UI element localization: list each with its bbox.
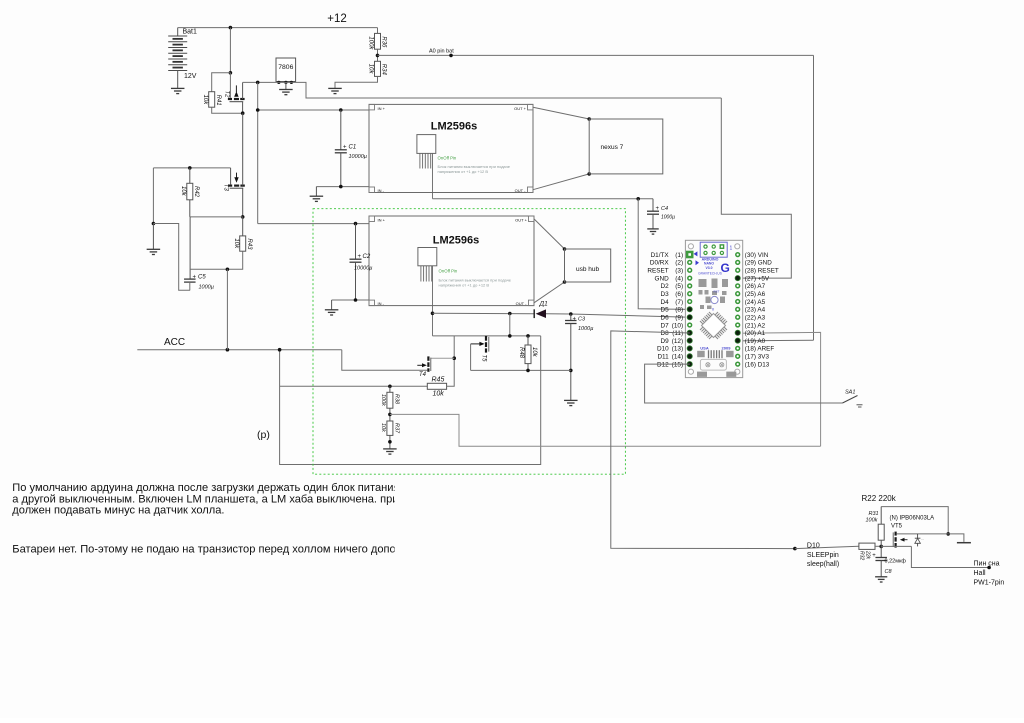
svg-text:а другой выключенным. Включен: а другой выключенным. Включен LM планшет… (12, 493, 410, 505)
svg-text:(17) 3V3: (17) 3V3 (745, 354, 770, 361)
wire module2 OnOff down (432, 266, 434, 336)
svg-text:(21) A2: (21) A2 (745, 322, 766, 329)
transistor T4 (431, 357, 454, 359)
svg-text:(24) A5: (24) A5 (745, 299, 766, 306)
node T4 drain (452, 356, 456, 360)
svg-text:(23) A4: (23) A4 (745, 307, 766, 314)
svg-text:OUT -: OUT - (515, 188, 526, 193)
transistor T5 (485, 336, 487, 341)
ground module1 IN- (310, 195, 324, 197)
svg-text:D12: D12 (657, 361, 669, 368)
block nexus 7 (589, 119, 663, 174)
resistor R37 10k (387, 421, 393, 435)
svg-text:По умолчанию ардуина должна по: По умолчанию ардуина должна после загруз… (12, 482, 399, 494)
svg-text:C4: C4 (661, 206, 668, 212)
svg-text:(2): (2) (675, 260, 683, 267)
svg-text:OUT +: OUT + (515, 217, 527, 222)
svg-text:должен подавать минус на датчи: должен подавать минус на датчик холла. (12, 505, 224, 517)
svg-text:D4: D4 (661, 299, 670, 306)
SMD pads (699, 279, 707, 287)
svg-text:(15): (15) (672, 361, 683, 368)
capacitor C4 1000u (652, 199, 654, 211)
svg-text:R34: R34 (381, 64, 387, 76)
resistor R48 10k (527, 336, 529, 345)
svg-text:PW1-7pin: PW1-7pin (974, 579, 1005, 586)
ground under 7806 (285, 82, 287, 89)
svg-text:D3: D3 (661, 291, 670, 298)
ground under C4 (647, 228, 658, 230)
transistor T2 (228, 98, 232, 100)
svg-text:+: + (656, 206, 660, 212)
wire R43 bottom rail (190, 251, 243, 269)
wire loop from T5 rail down-around to ACC (280, 336, 541, 465)
7806 pin dots (277, 81, 280, 84)
svg-text:T5: T5 (480, 355, 486, 363)
module LM2596s #2 (369, 216, 534, 306)
svg-text:100k: 100k (380, 394, 386, 406)
pin1 square pad (686, 251, 694, 259)
svg-text:(N) IPB06N03LA: (N) IPB06N03LA (890, 516, 935, 522)
ground under C8 (875, 576, 887, 578)
svg-text:usb hub: usb hub (576, 266, 600, 273)
wire VT5 source to hall pin (911, 546, 989, 567)
svg-text:(28) RESET: (28) RESET (745, 268, 779, 275)
svg-text:1000µ: 1000µ (661, 214, 675, 220)
svg-text:10k: 10k (531, 347, 537, 358)
wire left branch down to ground (152, 168, 154, 224)
wire C5 bottom loop (189, 282, 191, 290)
wire module2 IN- to ground (332, 299, 369, 301)
svg-text:D10: D10 (657, 346, 669, 353)
svg-text:10k: 10k (233, 238, 239, 249)
svg-text:A0 pin bat: A0 pin bat (429, 49, 454, 55)
svg-text:D0/RX: D0/RX (650, 260, 670, 267)
wires module2 OUT to usb hub (534, 219, 565, 249)
svg-text:R45: R45 (432, 377, 445, 384)
wire D12 to switch SA1 (645, 364, 843, 403)
svg-text:V3.0: V3.0 (706, 266, 713, 270)
svg-text:(12): (12) (672, 338, 683, 345)
wire R34 to ground (335, 76, 378, 88)
svg-text:OUT -: OUT - (516, 301, 527, 306)
svg-text:IN +: IN + (378, 106, 386, 111)
onoff package module1 (417, 135, 436, 154)
svg-text:D7: D7 (661, 322, 670, 329)
svg-text:R22 220k: R22 220k (862, 494, 897, 503)
wire A0 pin bat (378, 54, 814, 56)
description paragraphs (clipped at right) (12, 482, 410, 556)
switch SA1 (843, 396, 858, 404)
resistor R42 10k (189, 168, 191, 183)
svg-text:2009: 2009 (722, 345, 732, 350)
wire T3 gate rail (153, 167, 230, 169)
ground under R34 (328, 87, 342, 89)
svg-text:C8: C8 (885, 569, 893, 575)
svg-text:Д1: Д1 (539, 301, 549, 308)
capacitor C3 1000u (569, 312, 573, 316)
svg-text:1000µ: 1000µ (199, 284, 214, 290)
svg-text:100k: 100k (866, 518, 878, 524)
ground under R37 (383, 448, 397, 450)
svg-text:(29) GND: (29) GND (745, 260, 772, 267)
svg-text:D9: D9 (661, 338, 670, 345)
svg-text:OUT +: OUT + (514, 106, 526, 111)
capacitor C2 10000u (354, 222, 358, 226)
ground below Bat1 (171, 87, 185, 89)
svg-text:T3: T3 (222, 184, 228, 192)
svg-text:D5: D5 (661, 307, 670, 314)
module LM2596s #1 (369, 104, 533, 192)
wire T5 drain rail (433, 335, 541, 337)
svg-text:R38: R38 (393, 394, 399, 405)
svg-text:+: + (358, 254, 362, 260)
svg-text:GRAVITECH.US: GRAVITECH.US (698, 272, 722, 276)
svg-text:1: 1 (730, 246, 733, 252)
resistor R36 100k (377, 28, 379, 34)
transistor T3 (228, 185, 232, 187)
svg-text:12V: 12V (184, 73, 197, 80)
svg-text:LM2596s: LM2596s (433, 234, 479, 246)
dashed highlight box (313, 209, 625, 475)
wire ACC to T4 gate (342, 350, 428, 371)
svg-text:D6: D6 (661, 314, 670, 321)
wire module1 IN+ (258, 109, 369, 111)
svg-text:RESET: RESET (647, 268, 668, 275)
wire R45 rail (280, 385, 428, 387)
svg-text:IN -: IN - (378, 188, 385, 193)
resistor R41 10k (212, 73, 231, 92)
svg-text:OnOff Pin: OnOff Pin (439, 268, 458, 273)
svg-text:22k: 22k (865, 550, 871, 560)
ground under C3 (564, 399, 578, 401)
wire T2 source down to T3 drain (242, 113, 244, 185)
svg-text:(9): (9) (675, 314, 683, 321)
svg-text:R48: R48 (518, 347, 524, 359)
svg-text:G: G (721, 261, 730, 275)
onoff package module2 (418, 248, 437, 266)
svg-text:C3: C3 (578, 316, 586, 322)
svg-text:C2: C2 (363, 254, 371, 260)
connector pads bottom (708, 350, 710, 358)
svg-text:(3): (3) (675, 268, 683, 275)
svg-text:D11: D11 (657, 354, 669, 361)
wire source/ground rail under T5 (471, 369, 571, 371)
svg-text:Пин сна: Пин сна (974, 560, 1000, 567)
svg-text:RST: RST (714, 290, 720, 294)
ground right of VT5 (948, 534, 964, 542)
capacitor C5 1000u (184, 278, 196, 280)
svg-text:ACC: ACC (164, 337, 185, 348)
svg-text:(16) D13: (16) D13 (745, 361, 770, 368)
svg-text:1000µ: 1000µ (578, 326, 593, 332)
svg-text:SA1: SA1 (845, 390, 855, 396)
wire R38 junction to Arduino A1 (390, 414, 821, 446)
wire A0 vertical to Arduino A0 (813, 55, 815, 340)
svg-text:Т4: Т4 (419, 372, 427, 378)
svg-text:100k: 100k (368, 36, 374, 50)
wire module2 IN+ (258, 223, 369, 225)
capacitor C1 10000u (339, 108, 343, 112)
node T2 source / R41 (241, 111, 245, 115)
svg-text:напряжения от +1 до +12 В: напряжения от +1 до +12 В (438, 169, 489, 174)
svg-text:R37: R37 (393, 423, 399, 434)
VT5 drain line (897, 533, 949, 535)
svg-text:D8: D8 (661, 330, 670, 337)
svg-text:(20) A1: (20) A1 (745, 330, 766, 337)
svg-text:R41: R41 (215, 95, 221, 106)
wire D8 down to sleep line (611, 331, 795, 549)
svg-text:+: + (872, 553, 876, 559)
svg-text:+: + (343, 145, 347, 151)
svg-text:Батареи нет. По-этому не подаю: Батареи нет. По-этому не подаю на транзи… (12, 544, 395, 556)
node A0 divider junction (377, 49, 379, 61)
svg-text:(13): (13) (672, 346, 683, 353)
svg-text:R31: R31 (869, 511, 879, 517)
diode D1 (433, 312, 535, 314)
svg-text:10k: 10k (202, 95, 208, 106)
svg-text:(14): (14) (672, 354, 683, 361)
svg-text:R43: R43 (246, 238, 252, 250)
resistor R34 10k (375, 61, 381, 76)
svg-text:Bat1: Bat1 (183, 29, 198, 36)
ISP header (700, 242, 727, 257)
svg-text:10k: 10k (433, 391, 445, 398)
wires module1 OUT to nexus7 (533, 107, 589, 119)
svg-text:10k: 10k (180, 186, 186, 197)
svg-text:T2: T2 (224, 91, 230, 99)
wire +5V from 7806 to Arduino pin 27 (721, 98, 791, 278)
junction to module feed rail (256, 81, 260, 85)
svg-text:(p): (p) (257, 429, 270, 441)
wire T3 source down (242, 188, 244, 217)
svg-text:10k: 10k (380, 423, 386, 432)
capacitor C8 0.22uF (880, 546, 882, 557)
svg-text:USA: USA (700, 345, 709, 350)
svg-text:(4): (4) (675, 275, 683, 282)
svg-text:nexus 7: nexus 7 (601, 144, 624, 151)
USB connector outline (700, 359, 726, 370)
svg-text:(27) +5V: (27) +5V (745, 275, 770, 282)
MCU chip (702, 314, 726, 338)
wire diode to Arduino D6 (546, 314, 690, 317)
svg-text:IN -: IN - (378, 301, 385, 306)
svg-text:C1: C1 (349, 145, 357, 151)
wire vertical feed to both LM modules (257, 82, 259, 223)
svg-text:(19) A0: (19) A0 (745, 338, 766, 345)
svg-text:IN +: IN + (378, 217, 386, 222)
wire T2 drain rail under 7806 (243, 82, 722, 98)
wire down to ACC (226, 269, 228, 349)
block usb hub (565, 249, 611, 282)
svg-text:D2: D2 (661, 283, 670, 290)
svg-text:GND: GND (654, 275, 669, 282)
svg-text:напряжения от +1 до +12 В: напряжения от +1 до +12 В (439, 282, 490, 287)
wire +12 rail from battery to R36 (178, 27, 378, 29)
svg-text:D1/TX: D1/TX (651, 252, 670, 259)
svg-text:(6): (6) (675, 291, 683, 298)
svg-text:0,22мкф: 0,22мкф (885, 559, 907, 565)
svg-text:(8): (8) (675, 307, 683, 314)
svg-text:(26) A7: (26) A7 (745, 283, 766, 290)
resistor R43 10k (242, 217, 244, 236)
svg-text:(1): (1) (675, 252, 683, 259)
svg-text:10000µ: 10000µ (349, 154, 367, 160)
svg-text:LM2596s: LM2596s (431, 120, 477, 132)
regulator 7806 (276, 58, 296, 82)
wire module1 IN- to ground (316, 186, 369, 188)
svg-text:sleep(hall): sleep(hall) (807, 561, 839, 568)
svg-text:Hall: Hall (974, 570, 987, 577)
battery Bat1 12V (177, 28, 179, 36)
wire T5 source down-left (470, 344, 472, 371)
svg-text:R32: R32 (859, 551, 865, 560)
svg-text:(10): (10) (672, 322, 683, 329)
svg-text:OnOff Pin: OnOff Pin (438, 155, 457, 160)
wire T3 source to C5 top (190, 216, 243, 218)
Arduino Nano board (685, 240, 742, 377)
wire OnOff1 to Arduino D5 (638, 199, 690, 310)
svg-text:10000µ: 10000µ (354, 266, 372, 272)
svg-text:+12: +12 (327, 13, 347, 25)
svg-text:(11): (11) (672, 330, 683, 337)
svg-text:7806: 7806 (278, 64, 293, 71)
svg-text:(22) A3: (22) A3 (745, 314, 766, 321)
svg-text:+: + (573, 316, 577, 322)
pin rows (736, 253, 740, 257)
svg-text:R42: R42 (193, 186, 199, 198)
resistor R38 100k (388, 385, 392, 389)
svg-text:(7): (7) (675, 299, 683, 306)
wire R22 (881, 507, 948, 534)
svg-text:(25) A6: (25) A6 (745, 291, 766, 298)
ground module2 IN- (325, 309, 339, 311)
junction node top rail (229, 26, 233, 30)
ground left of C5 (147, 248, 161, 250)
svg-text:(18) AREF: (18) AREF (745, 346, 775, 353)
svg-text:R36: R36 (381, 36, 387, 48)
svg-text:(30) VIN: (30) VIN (745, 252, 769, 259)
VT5 gate/source line (881, 545, 911, 547)
wire module1 OnOff down to C4/D5 rail (432, 153, 434, 198)
wire OnOff2 branch down to T5 rail (509, 314, 511, 336)
VT5 body diode (917, 534, 919, 538)
svg-text:C5: C5 (198, 274, 206, 280)
svg-text:(5): (5) (675, 283, 683, 290)
svg-text:VT5: VT5 (891, 524, 903, 530)
svg-text:+: + (193, 274, 197, 280)
resistor R32 22k (795, 546, 859, 548)
svg-text:SLEEPpin: SLEEPpin (807, 552, 839, 559)
svg-text:10k: 10k (368, 64, 374, 75)
wire battery junction down to T2 gate (229, 28, 231, 73)
resistor R45 10k (427, 383, 446, 389)
